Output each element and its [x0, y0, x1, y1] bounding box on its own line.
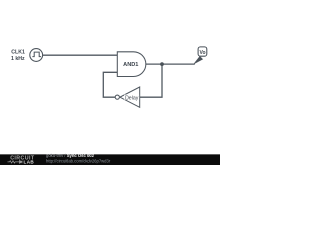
svg-text:CLK1: CLK1 — [11, 49, 25, 55]
svg-text:http://circuitlab.com/ckdv26p7: http://circuitlab.com/ckdv26p7wd3r — [46, 158, 111, 163]
footer title line — [46, 153, 95, 158]
svg-text:Delay: Delay — [125, 95, 139, 101]
CircuitLab logo CIRCUIT — [10, 156, 35, 162]
label AND1 — [123, 62, 138, 68]
wire AND1 output to Vo probe — [146, 63, 195, 65]
label 1 kHz — [11, 56, 25, 62]
svg-text:Vo: Vo — [199, 50, 205, 56]
wire CLK1 to AND1 input A — [43, 54, 118, 56]
clock source CLK1 symbol — [30, 49, 43, 62]
svg-text:LAB: LAB — [24, 160, 35, 165]
probe Vo (flag) — [194, 47, 207, 64]
node junction dot — [160, 62, 164, 66]
wire junction to Delay input — [140, 64, 162, 97]
inverter Delay (left-facing triangle with bubble) — [115, 87, 139, 107]
svg-text:1 kHz: 1 kHz — [11, 56, 25, 62]
label Delay — [124, 95, 139, 102]
footer bar — [0, 154, 220, 165]
and-gate AND1 — [117, 52, 146, 77]
svg-text:AND1: AND1 — [123, 62, 138, 68]
label CLK1 — [11, 49, 25, 55]
footer url line — [46, 158, 111, 163]
CircuitLab logo symbol row + LAB — [8, 160, 35, 165]
wire Delay output feedback to AND1 input B — [103, 72, 117, 97]
